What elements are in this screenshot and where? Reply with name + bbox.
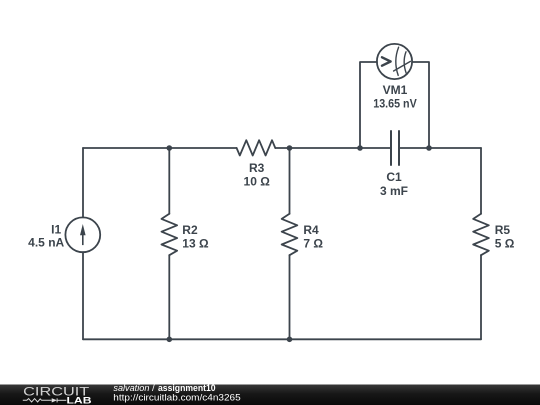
svg-text:5 Ω: 5 Ω <box>495 236 515 250</box>
node junction bottom R2 <box>167 337 173 343</box>
svg-text:7 Ω: 7 Ω <box>303 236 323 250</box>
svg-text:R2: R2 <box>182 223 198 237</box>
logo resistor squiggle and diode <box>23 398 67 402</box>
wire right rail upper <box>480 148 482 214</box>
wire R4 rail upper <box>289 148 291 214</box>
svg-text:13 Ω: 13 Ω <box>182 236 209 250</box>
svg-text:3 mF: 3 mF <box>380 184 408 198</box>
svg-text:C1: C1 <box>386 170 402 184</box>
wire top-left segment <box>83 147 237 149</box>
wire C1 right plate to top-right corner <box>399 147 481 149</box>
wire right rail lower <box>480 255 482 339</box>
svg-text:13.65 nV: 13.65 nV <box>373 97 417 111</box>
current source I1 arrow <box>82 235 84 245</box>
node junction VM1 right <box>426 145 432 151</box>
wire R4 rail lower <box>289 255 291 339</box>
node junction top R2 <box>167 145 173 151</box>
resistor R2 <box>162 214 178 255</box>
wire left rail upper <box>82 148 84 217</box>
footer bar <box>0 385 540 405</box>
svg-text:http://circuitlab.com/c4n3265: http://circuitlab.com/c4n3265 <box>113 392 240 403</box>
svg-text:4.5 nA: 4.5 nA <box>28 236 64 250</box>
node junction bottom R4 <box>287 337 293 343</box>
node junction VM1 left <box>357 145 363 151</box>
wire bottom rail <box>83 338 481 340</box>
capacitor C1 <box>391 131 399 165</box>
node junction top R4 <box>287 145 293 151</box>
wire R2 rail lower <box>168 255 170 339</box>
wire VM1 right leg <box>412 62 429 148</box>
wire R2 rail upper <box>168 148 170 214</box>
resistor R4 <box>282 214 298 255</box>
resistor R3 <box>237 140 276 155</box>
svg-text:VM1: VM1 <box>383 83 408 97</box>
voltmeter VM1 gauge arcs <box>396 47 399 75</box>
svg-text:R3: R3 <box>249 161 265 175</box>
svg-text:LAB: LAB <box>67 395 92 405</box>
wire left rail lower <box>82 252 84 339</box>
svg-text:R4: R4 <box>303 223 319 237</box>
voltmeter VM1 greater-than mark <box>382 57 391 65</box>
voltmeter VM1 circle <box>377 44 412 79</box>
current source I1 circle <box>65 217 100 252</box>
wire VM1 left leg <box>360 62 377 148</box>
voltmeter VM1 needle <box>394 61 411 71</box>
resistor R5 <box>473 214 489 255</box>
svg-text:R5: R5 <box>495 223 511 237</box>
svg-text:I1: I1 <box>51 222 61 236</box>
wire R3 to C1 left plate <box>275 147 391 149</box>
svg-text:10 Ω: 10 Ω <box>244 174 271 188</box>
